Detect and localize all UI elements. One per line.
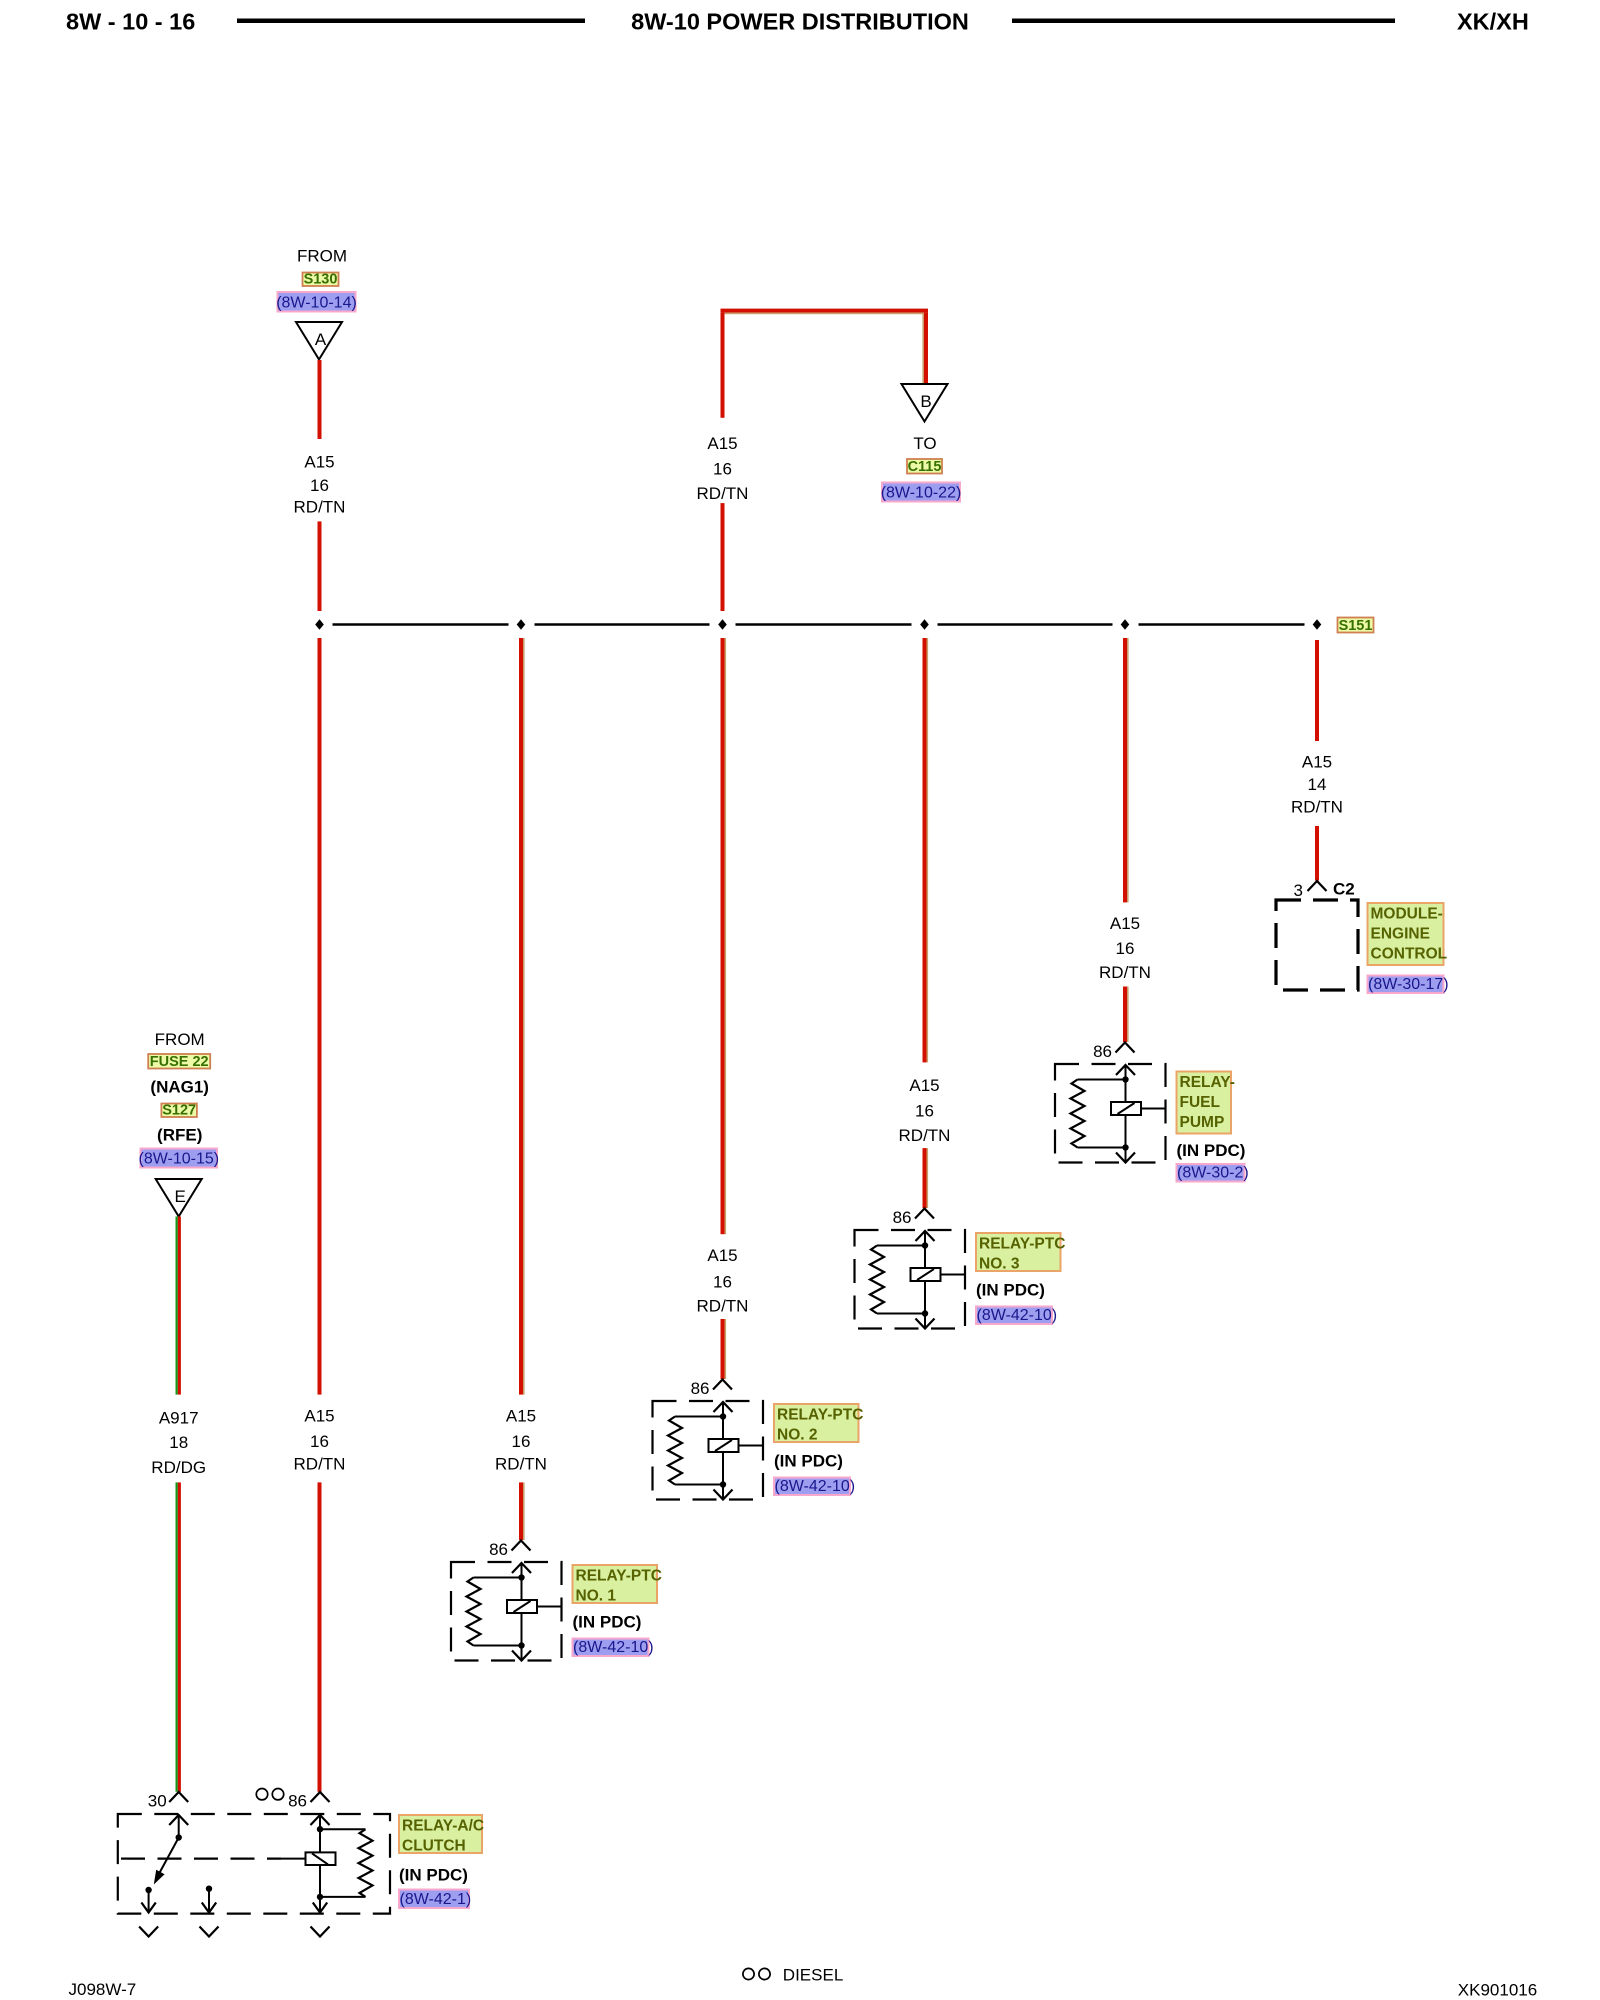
relay FUEL-PUMP junction bottom	[1122, 1144, 1128, 1150]
A/C relay output 87A wire	[208, 1889, 210, 1912]
relay PTC3 name label RELAY-PTC NO. 3	[976, 1233, 1065, 1273]
svg-text:XK/XH: XK/XH	[1457, 9, 1529, 35]
svg-text:(RFE): (RFE)	[157, 1126, 202, 1145]
svg-text:(IN PDC): (IN PDC)	[1177, 1141, 1246, 1160]
wire A15 into splice S151 bus (column A)	[318, 521, 322, 611]
connector chevron pin 86 PTC relay 3	[915, 1209, 934, 1219]
A/C relay contact 87A junction	[206, 1886, 212, 1892]
svg-text:16: 16	[713, 459, 732, 478]
relay PTC2 junction top	[720, 1413, 726, 1419]
svg-text:RD/TN: RD/TN	[1291, 798, 1343, 817]
svg-text:(8W-30-17): (8W-30-17)	[1368, 976, 1449, 993]
relay PTC1 name label RELAY-PTC NO. 1	[573, 1565, 662, 1605]
relay A/C clutch dashed box (IN PDC)	[118, 1814, 390, 1914]
svg-text:18: 18	[169, 1433, 188, 1452]
A/C relay coil junction top	[317, 1826, 323, 1832]
A/C relay resistor branch top wire	[320, 1828, 366, 1830]
relay PTC3 resistor branch top wire	[877, 1245, 925, 1247]
splice node junction 6	[1313, 619, 1322, 629]
relay PTC2 page ref (8W-42-10)	[774, 1478, 855, 1496]
svg-text:NO. 2: NO. 2	[777, 1427, 817, 1444]
relay FUEL-PUMP resistor branch bottom wire	[1078, 1147, 1126, 1149]
wire A15 16 RD/TN bus to PTC relay 1 (upper)	[519, 638, 525, 1395]
connector chevron pin 30 A/C relay	[169, 1792, 188, 1802]
svg-text:C2: C2	[1333, 880, 1355, 899]
svg-text:14: 14	[1308, 775, 1327, 794]
splice S130 label	[303, 272, 339, 288]
wire A15 16 RD/TN elbow to triangle B (horizontal run)	[721, 309, 929, 315]
relay fuel pump page ref (8W-30-2)	[1177, 1164, 1249, 1182]
relay FUEL-PUMP dashed box (IN PDC)	[1055, 1064, 1166, 1163]
module engine control page ref (8W-30-17)	[1368, 976, 1449, 994]
relay FUEL-PUMP resistor	[1071, 1080, 1085, 1148]
svg-text:A15: A15	[707, 434, 737, 453]
svg-text:A: A	[315, 330, 327, 349]
A/C relay switch common wire	[178, 1815, 180, 1838]
relay PTC2 resistor	[668, 1417, 682, 1485]
svg-text:A15: A15	[304, 452, 334, 471]
relay PTC3 dashed box (IN PDC)	[855, 1230, 966, 1329]
wire A15 16 RD/TN from triangle A	[318, 360, 322, 439]
svg-text:(IN PDC): (IN PDC)	[774, 1451, 843, 1470]
svg-text:B: B	[920, 392, 931, 411]
relay PTC1 coil return wire	[521, 1613, 523, 1659]
A/C relay output 87A arrowhead	[202, 1903, 216, 1913]
svg-text:(8W-10-14): (8W-10-14)	[276, 295, 357, 312]
svg-text:S151: S151	[1339, 618, 1373, 634]
wire A15 16 RD/TN bus to A/C relay (upper)	[318, 638, 322, 1395]
A/C relay coil	[306, 1852, 336, 1865]
wire label A15 16 RD/TN (column A)	[294, 452, 346, 516]
relay PTC2 dashed box (IN PDC)	[653, 1401, 764, 1500]
svg-text:(NAG1): (NAG1)	[150, 1078, 209, 1097]
relay PTC1 coil	[507, 1600, 537, 1613]
svg-text:XK901016: XK901016	[1458, 1981, 1537, 2000]
A/C relay output 87 wire	[148, 1890, 150, 1912]
svg-text:RELAY-PTC: RELAY-PTC	[576, 1568, 662, 1585]
relay FUEL-PUMP ground arrow out of box	[1116, 1153, 1135, 1163]
splice node junction 1	[315, 619, 324, 629]
relay PTC3 coil return wire	[924, 1281, 926, 1327]
relay A/C clutch page ref (8W-42-1)	[399, 1890, 471, 1909]
diesel option marker circles	[256, 1789, 283, 1800]
header left rule	[237, 19, 585, 24]
relay PTC1 coil lead to contact	[537, 1606, 561, 1608]
svg-text:8W - 10 - 16: 8W - 10 - 16	[66, 9, 195, 35]
svg-text:(8W-10-22): (8W-10-22)	[881, 485, 962, 502]
svg-text:86: 86	[489, 1540, 508, 1559]
wire A15 to PTC relay 2 pin 86 (lower)	[721, 1319, 727, 1379]
svg-text:CONTROL: CONTROL	[1371, 946, 1448, 963]
A/C relay switch pivot junction	[176, 1834, 182, 1840]
ground chevron below A/C relay output 87	[139, 1927, 158, 1937]
svg-text:NO. 1: NO. 1	[576, 1588, 617, 1605]
relay PTC3 resistor	[870, 1246, 884, 1314]
relay PTC1 dashed box (IN PDC)	[451, 1562, 562, 1661]
svg-text:FROM: FROM	[155, 1030, 205, 1049]
svg-text:FUEL: FUEL	[1180, 1094, 1220, 1111]
relay PTC3 page ref (8W-42-10)	[976, 1307, 1057, 1325]
relay PTC3 resistor branch bottom wire	[877, 1313, 925, 1315]
A/C relay resistor	[359, 1829, 373, 1897]
relay PTC3 pin 86 arrow into box	[916, 1231, 935, 1241]
relay PTC2 ground arrow out of box	[714, 1490, 733, 1500]
splice S127 label	[161, 1103, 197, 1119]
relay PTC1 coil feed wire	[521, 1563, 523, 1600]
relay FUEL-PUMP coil lead to contact	[1141, 1108, 1165, 1110]
relay fuel pump name label RELAY-FUEL PUMP	[1177, 1072, 1235, 1134]
A/C relay contact 87 junction	[145, 1887, 151, 1893]
relay FUEL-PUMP coil feed wire	[1125, 1065, 1127, 1102]
off-page connector triangle A	[296, 322, 342, 360]
page ref (8W-10-14)	[276, 292, 357, 312]
relay FUEL-PUMP resistor branch top wire	[1078, 1079, 1126, 1081]
svg-text:(8W-30-2): (8W-30-2)	[1177, 1165, 1249, 1182]
wire label A15 16 RD/TN (fuel pump column)	[1099, 914, 1151, 982]
relay PTC1 junction top	[518, 1574, 524, 1580]
splice S151 label	[1338, 618, 1374, 635]
ground chevron below A/C relay coil return	[311, 1927, 330, 1937]
svg-text:16: 16	[310, 1432, 329, 1451]
relay FUEL-PUMP pin 86 arrow into box	[1116, 1065, 1135, 1075]
relay PTC1 page ref (8W-42-10)	[573, 1639, 654, 1657]
connector chevron C2 pin 3 ECM	[1308, 881, 1327, 891]
relay PTC2 coil return wire	[722, 1452, 724, 1498]
connector C115 label	[907, 459, 942, 475]
svg-text:16: 16	[713, 1272, 732, 1291]
connector chevron pin 86 fuel pump relay	[1116, 1043, 1135, 1053]
svg-text:86: 86	[1093, 1042, 1112, 1061]
svg-text:86: 86	[288, 1792, 307, 1811]
wire A15 to ECM pin 3 (lower)	[1315, 826, 1319, 881]
connector chevron pin 86 PTC relay 1	[512, 1541, 531, 1551]
off-page connector triangle E	[156, 1179, 202, 1217]
wire A917 18 RD/DG to A/C relay pin 30 (lower)	[176, 1482, 181, 1791]
off-page connector triangle B	[902, 384, 948, 422]
wire A15 down to bus (column B)	[721, 503, 725, 611]
svg-text:RELAY-PTC: RELAY-PTC	[979, 1236, 1065, 1253]
relay PTC2 junction bottom	[720, 1481, 726, 1487]
relay PTC2 coil	[709, 1439, 739, 1452]
relay PTC1 resistor branch top wire	[474, 1577, 522, 1579]
A/C relay resistor branch bottom wire	[320, 1896, 366, 1898]
svg-text:S130: S130	[304, 272, 338, 288]
header right rule	[1012, 19, 1395, 24]
relay PTC2 name label RELAY-PTC NO. 2	[774, 1404, 863, 1444]
svg-text:(8W-42-1): (8W-42-1)	[400, 1891, 472, 1908]
A/C relay pin 30 arrow into box	[169, 1815, 188, 1825]
svg-text:(IN PDC): (IN PDC)	[976, 1280, 1045, 1299]
svg-text:A15: A15	[506, 1407, 536, 1426]
splice node junction 4	[920, 619, 929, 629]
wire A15 16 RD/TN bus to PTC relay 2 (upper)	[721, 638, 727, 1234]
svg-text:(IN PDC): (IN PDC)	[573, 1612, 642, 1631]
wire A15 to PTC relay 3 pin 86 (lower)	[923, 1148, 929, 1208]
page ref (8W-10-22)	[881, 483, 962, 502]
svg-text:16: 16	[512, 1432, 531, 1451]
diesel option legend circles	[743, 1968, 770, 1979]
wire label A15 16 RD/TN (column B)	[697, 434, 749, 503]
svg-text:FUSE 22: FUSE 22	[150, 1054, 209, 1070]
svg-text:(8W-42-10): (8W-42-10)	[573, 1639, 654, 1656]
svg-text:(IN PDC): (IN PDC)	[399, 1866, 468, 1885]
svg-text:A15: A15	[707, 1246, 737, 1265]
relay PTC2 pin 86 arrow into box	[714, 1402, 733, 1412]
wire label A15 14 RD/TN (ECM column)	[1291, 753, 1343, 817]
relay PTC2 resistor branch bottom wire	[675, 1484, 723, 1486]
svg-text:30: 30	[148, 1792, 167, 1811]
svg-text:RD/TN: RD/TN	[294, 1454, 346, 1473]
relay FUEL-PUMP coil return wire	[1125, 1115, 1127, 1161]
svg-text:RELAY-A/C: RELAY-A/C	[402, 1818, 484, 1835]
svg-text:A15: A15	[304, 1407, 334, 1426]
svg-text:NO. 3: NO. 3	[979, 1256, 1020, 1273]
svg-text:A15: A15	[1110, 914, 1140, 933]
svg-text:E: E	[175, 1187, 186, 1206]
svg-text:86: 86	[893, 1208, 912, 1227]
svg-text:RD/TN: RD/TN	[495, 1454, 547, 1473]
A/C relay switch blade (movable contact)	[158, 1838, 179, 1877]
relay PTC3 junction bottom	[922, 1310, 928, 1316]
wire A15 16 RD/TN bus to PTC relay 3 (upper)	[923, 638, 929, 1062]
svg-text:(8W-42-10): (8W-42-10)	[775, 1478, 856, 1495]
relay PTC2 coil lead to contact	[739, 1445, 763, 1447]
svg-text:RD/TN: RD/TN	[294, 498, 346, 517]
svg-text:C115: C115	[908, 459, 942, 475]
page ref (8W-10-15)	[138, 1149, 219, 1168]
ground chevron below A/C relay output 87A	[200, 1927, 219, 1937]
relay A/C clutch name label	[399, 1815, 484, 1855]
connector chevron pin 86 PTC relay 2	[713, 1380, 732, 1390]
wire elbow vertical drop to triangle B	[922, 313, 928, 384]
svg-text:A15: A15	[909, 1076, 939, 1095]
svg-text:16: 16	[1116, 939, 1135, 958]
relay PTC3 coil	[911, 1268, 941, 1281]
wire A15 elbow vertical (column B)	[721, 313, 725, 418]
wire label A917 18 RD/DG	[151, 1408, 206, 1477]
A/C relay coil ground arrowhead	[313, 1903, 327, 1913]
splice S151 bus wire	[333, 623, 1305, 626]
svg-text:CLUTCH: CLUTCH	[402, 1838, 466, 1855]
wire label A15 16 RD/TN (A/C column)	[294, 1407, 346, 1474]
A/C relay pin 86 arrow into box	[311, 1815, 330, 1825]
wire A15 to A/C relay pin 86 (lower)	[318, 1482, 322, 1791]
svg-text:16: 16	[915, 1101, 934, 1120]
wire label A15 16 RD/TN (PTC2 column)	[697, 1246, 749, 1315]
svg-text:(8W-10-15): (8W-10-15)	[138, 1151, 219, 1168]
A/C relay coil lead solid	[281, 1858, 306, 1860]
svg-text:MODULE-: MODULE-	[1371, 906, 1443, 923]
relay PTC2 coil feed wire	[722, 1402, 724, 1439]
svg-text:RD/TN: RD/TN	[697, 484, 749, 503]
svg-text:(8W-42-10): (8W-42-10)	[977, 1307, 1058, 1324]
svg-text:RD/DG: RD/DG	[151, 1458, 206, 1477]
fuse 22 label	[148, 1054, 210, 1070]
svg-text:FROM: FROM	[297, 247, 347, 266]
svg-text:A15: A15	[1302, 753, 1332, 772]
splice node junction 5	[1121, 619, 1130, 629]
relay PTC3 junction top	[922, 1242, 928, 1248]
wire A15 14 RD/TN bus to engine control module (upper)	[1315, 640, 1319, 741]
svg-text:PUMP: PUMP	[1180, 1114, 1225, 1131]
relay PTC1 junction bottom	[518, 1642, 524, 1648]
relay PTC1 resistor	[467, 1578, 481, 1646]
splice node junction 2	[517, 619, 526, 629]
svg-text:RELAY-: RELAY-	[1180, 1074, 1235, 1091]
relay PTC2 resistor branch top wire	[675, 1416, 723, 1418]
module engine control dashed box	[1276, 900, 1358, 990]
A/C relay coil junction bottom	[317, 1894, 323, 1900]
svg-text:RD/TN: RD/TN	[1099, 963, 1151, 982]
svg-text:J098W-7: J098W-7	[69, 1980, 137, 1999]
svg-text:RELAY-PTC: RELAY-PTC	[777, 1407, 863, 1424]
svg-text:8W-10 POWER DISTRIBUTION: 8W-10 POWER DISTRIBUTION	[631, 9, 969, 35]
relay FUEL-PUMP junction top	[1122, 1076, 1128, 1082]
svg-text:86: 86	[691, 1379, 710, 1398]
relay PTC1 pin 86 arrow into box	[512, 1563, 531, 1573]
relay PTC1 ground arrow out of box	[512, 1651, 531, 1661]
relay PTC3 coil lead to contact	[941, 1274, 965, 1276]
svg-text:ENGINE: ENGINE	[1371, 926, 1430, 943]
relay FUEL-PUMP coil	[1111, 1102, 1141, 1115]
wire A917 18 RD/DG from triangle E (upper)	[176, 1217, 181, 1395]
A/C relay actuation dashed link	[121, 1857, 281, 1859]
A/C relay coil return wire	[319, 1865, 321, 1912]
wire A15 16 RD/TN bus to fuel pump relay (upper)	[1123, 638, 1129, 902]
svg-text:RD/TN: RD/TN	[899, 1126, 951, 1145]
connector chevron pin 86 A/C relay	[311, 1792, 330, 1802]
svg-text:TO: TO	[913, 434, 936, 453]
svg-text:A917: A917	[159, 1408, 199, 1427]
A/C relay switch blade arrowhead	[154, 1870, 165, 1885]
svg-text:DIESEL: DIESEL	[783, 1965, 843, 1984]
wire A15 to fuel pump relay pin 86 (lower)	[1123, 987, 1129, 1043]
wire label A15 16 RD/TN (PTC3 column)	[899, 1076, 951, 1145]
splice node junction 3	[718, 619, 727, 629]
A/C relay output 87 arrowhead	[141, 1903, 155, 1913]
wire label A15 16 RD/TN (PTC1 column)	[495, 1407, 547, 1474]
svg-text:3: 3	[1294, 881, 1303, 900]
relay PTC1 resistor branch bottom wire	[474, 1645, 522, 1647]
relay PTC3 coil feed wire	[924, 1231, 926, 1268]
relay PTC3 ground arrow out of box	[916, 1319, 935, 1329]
module engine control name label	[1368, 903, 1448, 965]
A/C relay coil feed wire	[319, 1815, 321, 1852]
wire A15 to PTC relay 1 pin 86 (lower)	[519, 1482, 525, 1540]
svg-text:16: 16	[310, 476, 329, 495]
svg-text:RD/TN: RD/TN	[697, 1296, 749, 1315]
svg-text:S127: S127	[162, 1103, 196, 1119]
